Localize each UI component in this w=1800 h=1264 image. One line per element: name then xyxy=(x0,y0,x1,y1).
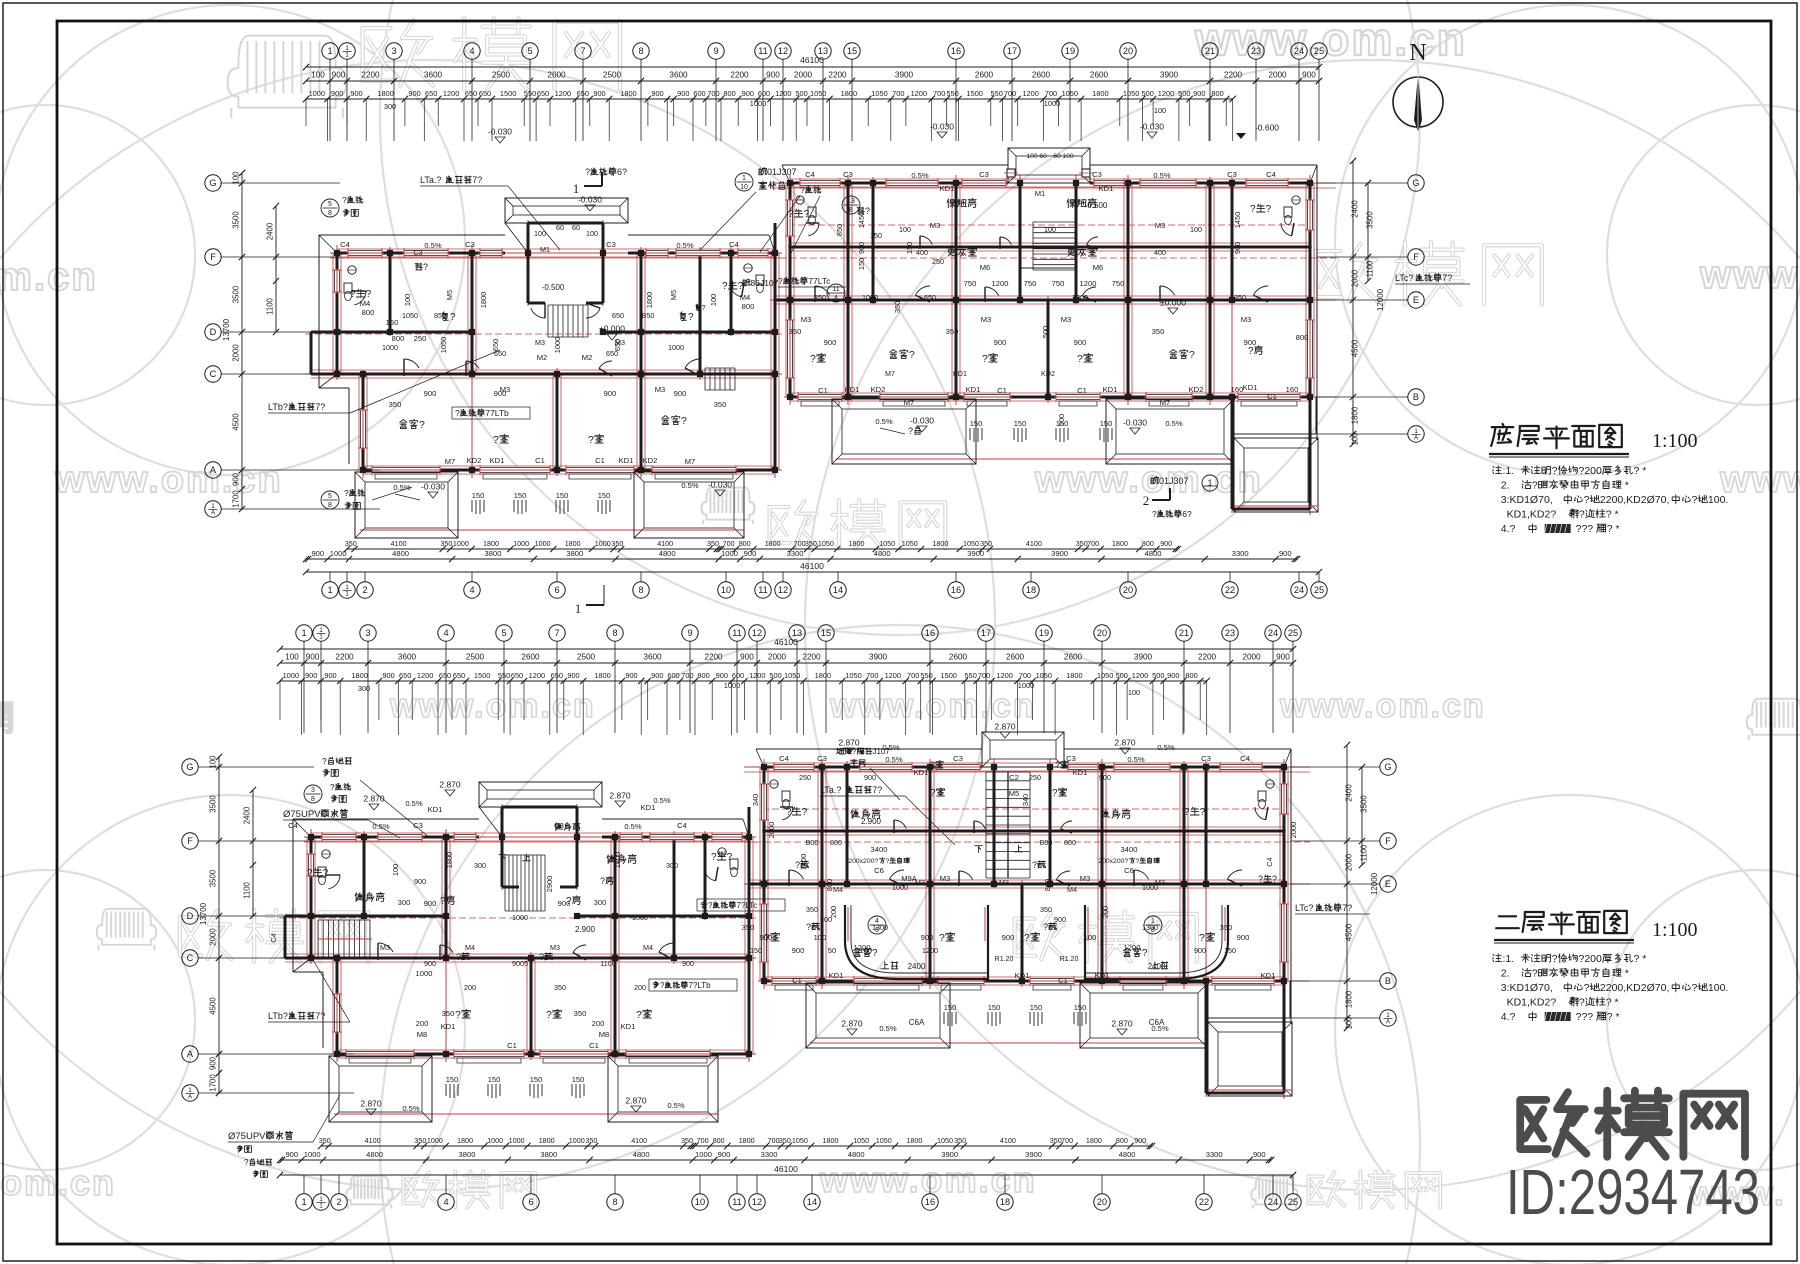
svg-text:?: ? xyxy=(330,782,335,792)
svg-text:?: ? xyxy=(1266,204,1272,215)
svg-text:550: 550 xyxy=(920,671,932,680)
svg-text:23: 23 xyxy=(1251,46,1261,56)
bottom grid bubbles xyxy=(322,582,338,598)
svg-text:KD1: KD1 xyxy=(1103,385,1118,394)
svg-text:8: 8 xyxy=(311,796,315,803)
svg-text:1050: 1050 xyxy=(439,337,448,353)
watermark texts xyxy=(228,36,347,119)
svg-text:?: ? xyxy=(1258,874,1263,884)
svg-text:om.cn: om.cn xyxy=(0,255,98,299)
svg-text:-0.030: -0.030 xyxy=(708,480,732,490)
svg-text:25: 25 xyxy=(1314,46,1324,56)
svg-text:?: ? xyxy=(546,1009,552,1021)
svg-text:7?: 7? xyxy=(472,175,482,185)
svg-text:1800: 1800 xyxy=(377,89,393,98)
svg-text:900: 900 xyxy=(1233,242,1242,254)
svg-text:0.5%: 0.5% xyxy=(885,755,903,764)
svg-text:2200: 2200 xyxy=(730,71,749,80)
svg-text:KD1: KD1 xyxy=(428,805,443,814)
svg-text:M3: M3 xyxy=(1080,874,1091,883)
svg-text:900: 900 xyxy=(742,89,754,98)
svg-text:300: 300 xyxy=(358,684,370,693)
svg-text:?: ? xyxy=(342,195,347,205)
svg-text:100: 100 xyxy=(285,653,299,662)
svg-text:2000: 2000 xyxy=(209,928,218,946)
svg-text:?: ? xyxy=(323,868,329,879)
svg-text:150: 150 xyxy=(572,1075,585,1084)
svg-text:1800: 1800 xyxy=(620,89,636,98)
svg-text:17: 17 xyxy=(1007,46,1017,56)
svg-text:4.?: 4.? xyxy=(1492,1011,1516,1023)
svg-text:700: 700 xyxy=(933,89,945,98)
svg-text:900: 900 xyxy=(744,549,757,558)
svg-text:1000: 1000 xyxy=(553,337,562,353)
porches xyxy=(329,1056,432,1122)
svg-text:3800: 3800 xyxy=(566,549,583,558)
svg-text:100: 100 xyxy=(1154,106,1166,115)
svg-text:350: 350 xyxy=(440,539,452,548)
svg-text:2600: 2600 xyxy=(1064,653,1083,662)
svg-text:www.om.cn: www.om.cn xyxy=(1279,687,1486,725)
svg-text:20: 20 xyxy=(1123,46,1133,56)
main walls xyxy=(337,252,505,255)
svg-text:LTa.?: LTa.? xyxy=(420,175,441,185)
svg-text:1000: 1000 xyxy=(721,549,738,558)
svg-text:19: 19 xyxy=(1039,628,1049,638)
svg-text:B: B xyxy=(1413,392,1419,402)
svg-text:1800: 1800 xyxy=(932,539,948,548)
svg-text:3500: 3500 xyxy=(232,211,241,229)
svg-text:A: A xyxy=(1414,435,1419,442)
svg-text:-0.030: -0.030 xyxy=(930,122,954,132)
right letter bubbles xyxy=(1380,759,1396,775)
svg-text:4800: 4800 xyxy=(633,1150,650,1159)
svg-text:1800: 1800 xyxy=(351,671,367,680)
svg-text:20: 20 xyxy=(1123,585,1133,595)
big logo OMW xyxy=(1520,1092,1586,1154)
svg-text:?: ? xyxy=(1692,494,1698,506)
svg-text:D: D xyxy=(210,327,217,337)
svg-text:20: 20 xyxy=(1097,1197,1107,1207)
svg-text:?: ? xyxy=(1189,349,1195,361)
svg-text:650: 650 xyxy=(537,89,549,98)
bath fixtures xyxy=(344,283,352,293)
svg-text:F: F xyxy=(187,836,193,846)
svg-text:?: ? xyxy=(585,167,590,177)
svg-text:?: ? xyxy=(588,434,594,446)
svg-text:100: 100 xyxy=(586,229,598,238)
svg-text:350: 350 xyxy=(681,1136,693,1145)
svg-text:KD2: KD2 xyxy=(871,385,886,394)
svg-text:3600: 3600 xyxy=(424,71,443,80)
svg-text:M3: M3 xyxy=(535,338,545,347)
svg-text:3300: 3300 xyxy=(1232,549,1249,558)
svg-text:500: 500 xyxy=(1041,326,1050,338)
svg-text:?: ? xyxy=(566,896,572,907)
svg-text:2.870: 2.870 xyxy=(1114,738,1136,748)
svg-text:*: * xyxy=(1622,480,1629,492)
svg-text:1200: 1200 xyxy=(922,946,938,955)
svg-text:M6: M6 xyxy=(1093,263,1104,272)
svg-text:20: 20 xyxy=(1097,628,1107,638)
svg-text:350: 350 xyxy=(980,539,992,548)
svg-text:800: 800 xyxy=(1064,838,1076,847)
svg-text:7: 7 xyxy=(580,46,585,56)
svg-text:1: 1 xyxy=(301,628,306,638)
svg-text:340: 340 xyxy=(751,794,760,806)
svg-text:18: 18 xyxy=(1026,585,1036,595)
svg-text:C4: C4 xyxy=(805,170,815,179)
svg-text:4800: 4800 xyxy=(366,1150,383,1159)
svg-text:1200: 1200 xyxy=(775,89,791,98)
svg-text:1: 1 xyxy=(345,52,349,59)
svg-text:3800: 3800 xyxy=(459,1150,476,1159)
svg-text:900: 900 xyxy=(424,899,437,908)
svg-text:350: 350 xyxy=(742,923,755,932)
svg-text:1800: 1800 xyxy=(849,539,865,548)
svg-text:G: G xyxy=(1384,762,1391,772)
svg-text:150: 150 xyxy=(598,491,611,500)
svg-text:0.5%: 0.5% xyxy=(1165,419,1183,428)
svg-text:D: D xyxy=(187,911,194,921)
svg-text:1800: 1800 xyxy=(457,1136,473,1145)
svg-text:1800: 1800 xyxy=(1086,1136,1102,1145)
right dim chains xyxy=(1352,161,1354,444)
svg-text:N: N xyxy=(1409,40,1426,66)
svg-text:KD1: KD1 xyxy=(1243,383,1258,392)
svg-text:01J307: 01J307 xyxy=(1159,476,1189,486)
svg-text:1100: 1100 xyxy=(243,881,252,898)
svg-text:C4: C4 xyxy=(269,933,278,942)
svg-text:1050: 1050 xyxy=(1123,89,1139,98)
svg-text:900: 900 xyxy=(232,472,241,486)
svg-text:?: ? xyxy=(1584,494,1590,506)
svg-text:3500: 3500 xyxy=(232,285,241,303)
svg-text:1050: 1050 xyxy=(963,539,979,548)
svg-text:12: 12 xyxy=(752,1197,762,1207)
svg-text:4100: 4100 xyxy=(1026,539,1042,548)
svg-text:8: 8 xyxy=(638,46,643,56)
stairs xyxy=(504,855,506,911)
svg-text:700: 700 xyxy=(707,89,719,98)
svg-text:250: 250 xyxy=(414,334,427,343)
svg-text:750: 750 xyxy=(1024,279,1037,288)
svg-text:800: 800 xyxy=(1043,879,1052,891)
svg-text:C4: C4 xyxy=(677,821,687,830)
svg-text:0.5%: 0.5% xyxy=(911,171,929,180)
svg-text:86J107: 86J107 xyxy=(751,278,779,288)
svg-text:2000: 2000 xyxy=(232,344,241,362)
svg-text:2400: 2400 xyxy=(243,806,252,824)
svg-text:C3: C3 xyxy=(413,248,422,257)
svg-text:M3: M3 xyxy=(550,943,560,952)
svg-text:?: ? xyxy=(1052,788,1058,799)
svg-text:1050: 1050 xyxy=(402,311,418,320)
svg-text:?: ? xyxy=(456,952,461,962)
svg-text:C6: C6 xyxy=(1124,866,1134,875)
svg-text:Ø75UPVC: Ø75UPVC xyxy=(228,1131,272,1142)
svg-text:KD1: KD1 xyxy=(441,1022,456,1031)
svg-text:1200: 1200 xyxy=(555,89,571,98)
svg-text:11: 11 xyxy=(732,628,742,638)
svg-text:1050: 1050 xyxy=(818,539,834,548)
svg-text:?: ? xyxy=(865,206,870,216)
svg-text:?: ? xyxy=(806,922,811,932)
svg-text:150: 150 xyxy=(857,258,866,270)
svg-text:G: G xyxy=(1412,178,1419,188)
svg-text:150: 150 xyxy=(988,1003,1001,1012)
svg-text:400: 400 xyxy=(1154,248,1166,257)
svg-text:C: C xyxy=(187,953,194,963)
svg-text:?: ? xyxy=(681,415,687,427)
svg-text:550: 550 xyxy=(498,671,510,680)
svg-text:M3: M3 xyxy=(1061,315,1072,324)
svg-text:1050: 1050 xyxy=(1097,671,1113,680)
svg-text:1000: 1000 xyxy=(487,1136,503,1145)
svg-text:0.5%: 0.5% xyxy=(1127,755,1145,764)
svg-text:900: 900 xyxy=(740,653,754,662)
svg-text:2.870: 2.870 xyxy=(609,791,631,801)
svg-text:150: 150 xyxy=(488,1075,501,1084)
svg-text:1000: 1000 xyxy=(750,99,766,108)
svg-text:900: 900 xyxy=(921,933,934,942)
svg-text:2.870: 2.870 xyxy=(841,1019,863,1029)
svg-text:C6: C6 xyxy=(874,866,884,875)
svg-text:900: 900 xyxy=(864,773,876,782)
svg-text:?: ? xyxy=(1055,760,1060,770)
svg-text:1700: 1700 xyxy=(232,490,241,508)
svg-text:7?: 7? xyxy=(1442,273,1452,283)
svg-text:1100: 1100 xyxy=(266,297,275,314)
svg-text:-0.030: -0.030 xyxy=(1140,122,1164,132)
svg-text:350: 350 xyxy=(805,539,817,548)
svg-text:R1.20: R1.20 xyxy=(1060,956,1079,963)
svg-text:M3: M3 xyxy=(981,315,992,324)
top dim chain fine xyxy=(306,98,1233,100)
svg-text:900: 900 xyxy=(382,671,394,680)
svg-text:? *: ? * xyxy=(1607,523,1620,535)
svg-text:1000: 1000 xyxy=(309,89,325,98)
svg-text:2000: 2000 xyxy=(768,653,787,662)
svg-text:150: 150 xyxy=(472,491,485,500)
svg-text:M3: M3 xyxy=(1241,315,1252,324)
svg-text:M3: M3 xyxy=(930,221,941,230)
svg-text:4500: 4500 xyxy=(232,413,241,431)
svg-text:1800: 1800 xyxy=(1092,89,1108,98)
svg-text:KD1: KD1 xyxy=(619,456,634,465)
svg-text:M5: M5 xyxy=(1009,789,1020,798)
svg-text:2200: 2200 xyxy=(704,653,723,662)
svg-text:C4: C4 xyxy=(340,240,350,249)
svg-text:0.5%: 0.5% xyxy=(624,822,642,831)
svg-text:7?: 7? xyxy=(1342,903,1352,913)
svg-text:900: 900 xyxy=(674,389,687,398)
svg-text:2200,KD2Ø70,: 2200,KD2Ø70, xyxy=(1600,982,1669,994)
svg-text:7?: 7? xyxy=(315,402,325,412)
svg-text:700: 700 xyxy=(697,1136,709,1145)
svg-text:?: ? xyxy=(852,747,857,756)
svg-text:800: 800 xyxy=(362,308,375,317)
svg-text:-0.500: -0.500 xyxy=(542,283,565,292)
svg-text:M7: M7 xyxy=(904,398,915,407)
svg-text:650: 650 xyxy=(606,349,618,358)
svg-text:16: 16 xyxy=(925,1197,935,1207)
svg-text:A: A xyxy=(188,1094,193,1101)
svg-text:±0.000: ±0.000 xyxy=(1160,298,1186,308)
svg-text:1100: 1100 xyxy=(1360,844,1369,861)
svg-text:3900: 3900 xyxy=(1025,1150,1042,1159)
svg-text:-0.030: -0.030 xyxy=(1123,418,1147,428)
svg-text:?: ? xyxy=(711,852,717,863)
svg-text:C: C xyxy=(210,369,217,379)
svg-text:900: 900 xyxy=(350,89,362,98)
svg-text:300: 300 xyxy=(474,861,486,870)
svg-text:3900: 3900 xyxy=(967,549,984,558)
svg-text:800: 800 xyxy=(1142,539,1154,548)
svg-text:900: 900 xyxy=(1002,933,1015,942)
svg-text:?: ? xyxy=(1579,509,1585,521)
svg-text:160: 160 xyxy=(1231,385,1244,394)
svg-text:M5: M5 xyxy=(669,290,678,300)
svg-text:M1: M1 xyxy=(1035,189,1046,198)
svg-text:13: 13 xyxy=(847,198,855,205)
svg-text:800: 800 xyxy=(742,302,755,311)
svg-text:150: 150 xyxy=(1074,1003,1087,1012)
svg-text:900: 900 xyxy=(1099,773,1111,782)
right dim chains xyxy=(1346,745,1348,1028)
svg-text:M8: M8 xyxy=(417,1030,428,1039)
windows xyxy=(322,834,356,840)
notes ground floor xyxy=(1493,466,1502,474)
svg-text:KD1: KD1 xyxy=(621,1022,636,1031)
svg-text:B00: B00 xyxy=(806,838,819,847)
svg-text:850: 850 xyxy=(835,224,844,236)
svg-text:?: ? xyxy=(786,807,792,818)
svg-text:100: 100 xyxy=(1345,1016,1354,1030)
svg-text:?: ? xyxy=(788,209,794,220)
svg-text:M7: M7 xyxy=(685,457,696,466)
svg-text:?: ? xyxy=(1043,922,1048,932)
svg-text:350: 350 xyxy=(1152,327,1165,336)
svg-text:B00: B00 xyxy=(1040,838,1053,847)
svg-text:?: ? xyxy=(419,419,425,431)
svg-text:19: 19 xyxy=(1065,46,1075,56)
svg-text:2.870: 2.870 xyxy=(625,1096,647,1106)
svg-text:?: ? xyxy=(350,289,356,300)
svg-text:350: 350 xyxy=(714,400,727,409)
svg-text:KD1: KD1 xyxy=(914,768,929,777)
bottom dim chains xyxy=(321,1145,1152,1147)
svg-text:200: 200 xyxy=(416,1019,429,1028)
svg-text:650: 650 xyxy=(612,311,624,320)
svg-text:2.870: 2.870 xyxy=(838,738,860,748)
svg-text:???: ??? xyxy=(1573,1011,1594,1023)
svg-text:M4: M4 xyxy=(833,885,843,894)
svg-text:1500: 1500 xyxy=(500,89,516,98)
svg-text:650: 650 xyxy=(439,671,451,680)
svg-text:M6: M6 xyxy=(980,263,991,272)
svg-text:100: 100 xyxy=(1044,225,1056,234)
svg-text:77LTc: 77LTc xyxy=(808,276,831,286)
svg-text:6: 6 xyxy=(528,1197,533,1207)
svg-text:9: 9 xyxy=(687,628,692,638)
columns xyxy=(308,834,314,840)
svg-text:3500: 3500 xyxy=(209,795,218,813)
svg-text:2200: 2200 xyxy=(1224,71,1243,80)
svg-text:350: 350 xyxy=(345,539,357,548)
svg-text:?: ? xyxy=(939,932,945,944)
svg-text:0.5%: 0.5% xyxy=(372,822,390,831)
svg-text:2.900: 2.900 xyxy=(575,925,596,934)
svg-text:? *: ? * xyxy=(1634,953,1647,965)
svg-text:800: 800 xyxy=(697,671,709,680)
svg-text:M3: M3 xyxy=(500,385,511,394)
svg-text:C3: C3 xyxy=(1201,754,1211,763)
svg-text:6?: 6? xyxy=(1182,509,1192,519)
svg-text:2600: 2600 xyxy=(1032,71,1051,80)
left letter bubbles xyxy=(182,759,198,775)
svg-text:4800: 4800 xyxy=(874,549,891,558)
svg-text:300: 300 xyxy=(384,102,396,111)
svg-text:250: 250 xyxy=(799,773,811,782)
svg-text:?: ? xyxy=(1032,860,1037,870)
svg-text:24: 24 xyxy=(1268,628,1278,638)
svg-text:700: 700 xyxy=(978,671,990,680)
svg-text:800: 800 xyxy=(723,89,735,98)
svg-text:150: 150 xyxy=(1030,1003,1043,1012)
svg-text:0.5%: 0.5% xyxy=(1151,1024,1169,1033)
svg-text:16: 16 xyxy=(925,628,935,638)
svg-text:?: ? xyxy=(660,981,665,990)
svg-text:350: 350 xyxy=(1050,1136,1062,1145)
svg-text:C1: C1 xyxy=(507,1041,517,1050)
svg-text:KD1: KD1 xyxy=(845,385,860,394)
title ground floor plan xyxy=(1491,424,1513,446)
svg-text:7: 7 xyxy=(554,628,559,638)
svg-text:1000: 1000 xyxy=(512,913,528,922)
svg-text:KD1: KD1 xyxy=(490,456,505,465)
svg-text:2: 2 xyxy=(1143,493,1150,508)
svg-text:?: ? xyxy=(909,349,915,361)
svg-text:3500: 3500 xyxy=(1366,211,1375,229)
svg-text:1000: 1000 xyxy=(416,969,433,978)
bottom grid bubbles xyxy=(296,1194,312,1210)
svg-text:1100: 1100 xyxy=(1366,260,1375,277)
svg-text:2200: 2200 xyxy=(1198,653,1217,662)
top dim 46100 xyxy=(280,648,1293,650)
svg-text:3900: 3900 xyxy=(1051,549,1068,558)
left dim chains xyxy=(241,173,243,509)
svg-text:1200: 1200 xyxy=(417,671,433,680)
svg-text:2200: 2200 xyxy=(361,71,380,80)
svg-text:550: 550 xyxy=(965,671,977,680)
svg-text:15: 15 xyxy=(847,46,857,56)
svg-text:1000: 1000 xyxy=(382,343,398,352)
svg-text:C1: C1 xyxy=(1058,976,1068,985)
svg-text:1000: 1000 xyxy=(1072,293,1088,302)
svg-text:?: ? xyxy=(1250,204,1256,215)
svg-text:C3: C3 xyxy=(817,754,827,763)
svg-text:?: ? xyxy=(702,303,706,312)
svg-text:1800: 1800 xyxy=(1066,671,1082,680)
svg-text:?: ? xyxy=(708,901,713,910)
svg-text:M3: M3 xyxy=(380,943,390,952)
svg-text:-0.030: -0.030 xyxy=(578,195,602,205)
svg-text:18: 18 xyxy=(1000,1197,1010,1207)
svg-text:25: 25 xyxy=(1314,585,1324,595)
svg-text:900: 900 xyxy=(1054,915,1066,924)
svg-text:KD1: KD1 xyxy=(1261,971,1276,980)
